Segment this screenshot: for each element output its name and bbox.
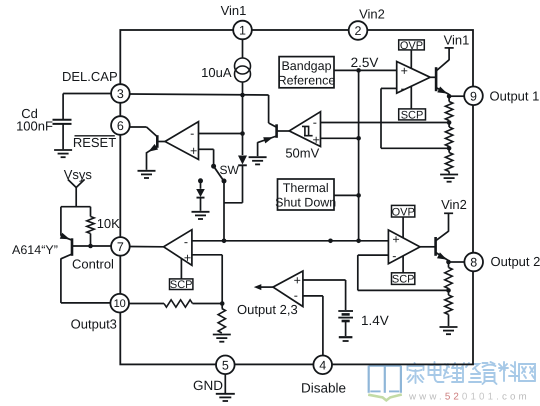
svg-text:Bandgap: Bandgap xyxy=(281,59,331,73)
wire: op-amp1 minus input feedback xyxy=(381,87,397,89)
ground below divider 1 xyxy=(440,174,458,176)
node: base node of QC xyxy=(88,244,93,249)
svg-text:+: + xyxy=(294,273,301,287)
resistor R8 (vertical to ground) xyxy=(221,304,223,309)
svg-text:-: - xyxy=(190,126,194,140)
IC block border xyxy=(120,30,473,364)
wire: comparator-B minus input to output1 divider tap (long) xyxy=(321,122,450,124)
svg-text:6: 6 xyxy=(117,119,124,133)
wire: emitter node to pin9 xyxy=(449,95,464,97)
svg-text:3: 3 xyxy=(117,87,124,101)
pin 4 Disable xyxy=(313,356,332,375)
ground below QA emitter xyxy=(138,170,156,172)
wire: op-amp4 minus to pin4 Disable xyxy=(303,295,323,297)
divider: R5 xyxy=(448,290,450,295)
node: Q1 emitter junction xyxy=(447,94,452,99)
wire: QA base to comparator-A output xyxy=(157,141,165,143)
wire: pin10 to resistor xyxy=(129,303,164,305)
ground below battery xyxy=(339,336,353,338)
switch SW xyxy=(211,164,216,169)
svg-text:SCP: SCP xyxy=(392,274,415,286)
svg-text:-: - xyxy=(401,81,405,95)
svg-text:+: + xyxy=(190,144,197,158)
wire: op-amp2 minus feedback xyxy=(358,254,389,256)
svg-text:Vin2: Vin2 xyxy=(359,7,385,22)
pin 7 Control xyxy=(111,237,130,256)
pin 3 DEL.CAP xyxy=(111,84,130,103)
svg-text:7: 7 xyxy=(117,240,124,254)
wire: emitter node to pin8 xyxy=(449,261,465,263)
wire: 10K to base node xyxy=(90,234,92,247)
comparator A (drives RESET) xyxy=(165,122,199,160)
svg-text:1.4V: 1.4V xyxy=(361,313,389,328)
svg-text:Output 2,3: Output 2,3 xyxy=(237,302,298,317)
transistor QA (NPN, open collector for RESET) xyxy=(147,127,158,137)
node: junction of pin3 net xyxy=(240,93,245,98)
wire: Q2 collector to Vin2 stub xyxy=(448,213,450,231)
wire: long line op-amp3 minus to op-amp2 plus xyxy=(192,240,389,242)
svg-text:+: + xyxy=(184,251,191,265)
watermark logo: open book icon xyxy=(369,366,401,393)
transistor QB (PNP at 50mV comparator) xyxy=(275,124,278,138)
comparator B (50mV detector) xyxy=(289,112,320,147)
transistor Q2 (NPN pass, output2) xyxy=(434,237,437,256)
pin 9 Output 1 xyxy=(464,87,483,106)
capacitor Cd 100nF xyxy=(53,119,72,121)
op-amp1 (output1 error amp) xyxy=(397,62,431,94)
svg-text:Output3: Output3 xyxy=(71,317,117,332)
pin 1 Vin1 xyxy=(233,21,252,40)
svg-text:2.5V: 2.5V xyxy=(351,55,379,70)
svg-text:-: - xyxy=(294,289,298,303)
wire: op-amp4 plus to 1.4V battery xyxy=(303,279,346,281)
svg-text:10uA: 10uA xyxy=(201,65,232,80)
current source 10uA (double circle) xyxy=(235,58,251,74)
wire: op-amp2 to SCP box xyxy=(402,256,404,273)
svg-text:www.520101.com: www.520101.com xyxy=(408,392,530,403)
node: 2.5V junction xyxy=(356,68,361,73)
wire: op-amp1 output to Q1 base xyxy=(430,76,436,78)
ground below QB emitter xyxy=(249,156,267,158)
wire: op-amp3 to SCP box xyxy=(180,259,182,279)
svg-text:100nF: 100nF xyxy=(16,119,53,134)
svg-text:-: - xyxy=(392,249,396,263)
wire: pin3 net corner to QB collector xyxy=(269,123,277,127)
node: tap to op-amp1 feedback xyxy=(447,146,452,151)
wire: op-amp1 to SCP box xyxy=(410,86,412,109)
svg-text:4: 4 xyxy=(319,358,326,372)
output arrow of op-amp4 xyxy=(257,286,273,288)
wire: pin3 to junction and to Q-B collector corner xyxy=(130,94,269,95)
op-amp2 (output2 error amp) xyxy=(388,230,420,264)
wire: thermal shutdown to 2.5V rail xyxy=(334,194,359,196)
watermark chinese text: approximated glyph strokes xyxy=(408,363,424,383)
divider: R2 xyxy=(448,123,450,128)
svg-text:Output 1: Output 1 xyxy=(490,88,540,103)
svg-text:Control: Control xyxy=(72,257,114,272)
schmitt symbol inside comparator B xyxy=(302,126,313,135)
wire: 10uA to node at (242.5,95) xyxy=(242,82,244,95)
wire: QC base to pin7 xyxy=(72,245,111,247)
box: Bandgap Reference xyxy=(279,57,334,88)
svg-text:GND: GND xyxy=(193,378,223,393)
node: 2.5V rail meets long line xyxy=(356,239,361,244)
box: OVP (op-amp2) xyxy=(392,205,415,217)
pin 5 GND xyxy=(216,356,235,375)
wire: pin7 to op-amp3 output xyxy=(130,246,164,248)
svg-text:+: + xyxy=(392,233,399,247)
svg-text:Vin2: Vin2 xyxy=(441,197,467,212)
svg-text:10K: 10K xyxy=(97,216,120,231)
svg-text:+: + xyxy=(401,64,408,78)
op-amp4 (disable comparator, points left) xyxy=(273,271,303,307)
box: OVP (op-amp1) xyxy=(399,40,425,50)
node: SW joins long line xyxy=(222,239,227,244)
svg-text:Thermal: Thermal xyxy=(283,181,329,195)
wire: bandgap output 2.5V to op-amp1 plus input xyxy=(334,69,397,71)
wire: op-amp2 output to Q2 base xyxy=(420,246,436,248)
box: SCP (op-amp3) xyxy=(170,279,193,290)
pin 10 Output3 xyxy=(110,294,129,313)
wire: op-amp3 plus input to divider xyxy=(192,254,222,256)
pin 2 Vin2 xyxy=(349,21,368,40)
svg-text:A614“Y”: A614“Y” xyxy=(12,243,58,257)
divider: R1 xyxy=(448,96,450,101)
svg-text:Vin1: Vin1 xyxy=(221,3,247,18)
wire: junction down to comparator-A minus node xyxy=(242,95,244,134)
node: comparator-A minus input node xyxy=(240,131,245,136)
wire: OVP2 to op-amp2 xyxy=(402,217,404,238)
battery 1.4V xyxy=(338,310,353,312)
wire: Vsys split to QC emitter and 10K xyxy=(61,206,91,208)
wire: 2.5V vertical rail xyxy=(358,70,360,240)
svg-text:9: 9 xyxy=(470,89,477,103)
wire: QB base to comparator-B output xyxy=(277,130,290,132)
svg-text:-: - xyxy=(313,116,317,130)
transistor Q1 (NPN pass, output1) xyxy=(435,67,438,91)
pin 6 RESET xyxy=(111,116,130,135)
svg-text:OVP: OVP xyxy=(392,206,415,218)
wire: pin6 to transistor QA collector xyxy=(130,126,147,128)
watermark logo: green ribbon swoosh xyxy=(368,395,402,401)
wire: comparator-A minus input to 10uA node xyxy=(199,133,243,135)
diode D1 below comparator-A minus node xyxy=(242,134,244,156)
svg-text:1: 1 xyxy=(239,24,246,38)
node: junction dot on long line xyxy=(328,239,333,244)
Vsys antenna symbol xyxy=(68,179,76,187)
divider: R4 xyxy=(448,262,450,268)
ground below divider 2 xyxy=(440,326,458,328)
node: tap to op-amp2 feedback xyxy=(446,288,451,293)
svg-text:SCP: SCP xyxy=(170,279,193,291)
svg-text:DEL.CAP: DEL.CAP xyxy=(62,69,118,84)
wire: Q1 collector to Vin1 stub xyxy=(448,48,450,60)
node: 2.5V at comparator-B plus xyxy=(356,136,361,141)
svg-text:-: - xyxy=(184,235,188,249)
ground below Cd xyxy=(54,149,72,151)
wire: comparator-B plus input to 2.5V rail xyxy=(321,137,359,139)
svg-text:5: 5 xyxy=(222,358,229,372)
box: SCP (op-amp2) xyxy=(392,273,415,285)
ground below pin5 xyxy=(224,374,226,393)
box: Thermal Shut Down xyxy=(278,179,335,210)
node: divider junction xyxy=(220,301,225,306)
node: tap to 50mV comparator xyxy=(447,120,452,125)
diode D2 with ground (left of SW) xyxy=(198,178,203,183)
svg-text:RESET: RESET xyxy=(73,135,116,150)
svg-text:Output 2: Output 2 xyxy=(491,254,540,269)
wire: pin1 to 10uA current source xyxy=(242,39,244,58)
wire: comparator-A plus input to switch SW xyxy=(199,148,214,150)
box: SCP (op-amp1) xyxy=(399,109,426,120)
svg-text:Vin1: Vin1 xyxy=(444,33,470,48)
divider: R3 xyxy=(448,148,450,152)
svg-text:50mV: 50mV xyxy=(285,146,319,161)
svg-text:Reference: Reference xyxy=(278,73,336,87)
node: 2.5V at thermal shutdown tap xyxy=(356,193,361,198)
svg-text:Disable: Disable xyxy=(301,381,346,396)
wire: D1 cathode to SW branch xyxy=(224,202,243,204)
wire: OVP to op-amp1 xyxy=(410,50,412,69)
node: Q2 emitter junction xyxy=(446,260,451,265)
wire: SW contact down to 2.5V rail line xyxy=(223,181,225,241)
transistor QC (PNP, A614 Y) xyxy=(61,236,72,240)
wire: pin3 to capacitor Cd xyxy=(63,93,111,95)
svg-text:SW: SW xyxy=(220,163,240,177)
svg-text:8: 8 xyxy=(470,256,477,270)
pin 8 Output 2 xyxy=(464,253,483,272)
resistor 10K xyxy=(87,217,94,234)
svg-text:SCP: SCP xyxy=(401,110,424,122)
resistor R7 (horizontal, pin10) xyxy=(164,300,193,307)
ground below R8 xyxy=(213,334,231,336)
op-amp3 (control amp, points left) xyxy=(164,230,192,266)
wire: QC collector down to pin10 line xyxy=(60,258,62,303)
svg-text:10: 10 xyxy=(114,298,126,310)
svg-text:Shut Down: Shut Down xyxy=(275,196,336,210)
svg-text:2: 2 xyxy=(355,24,362,38)
